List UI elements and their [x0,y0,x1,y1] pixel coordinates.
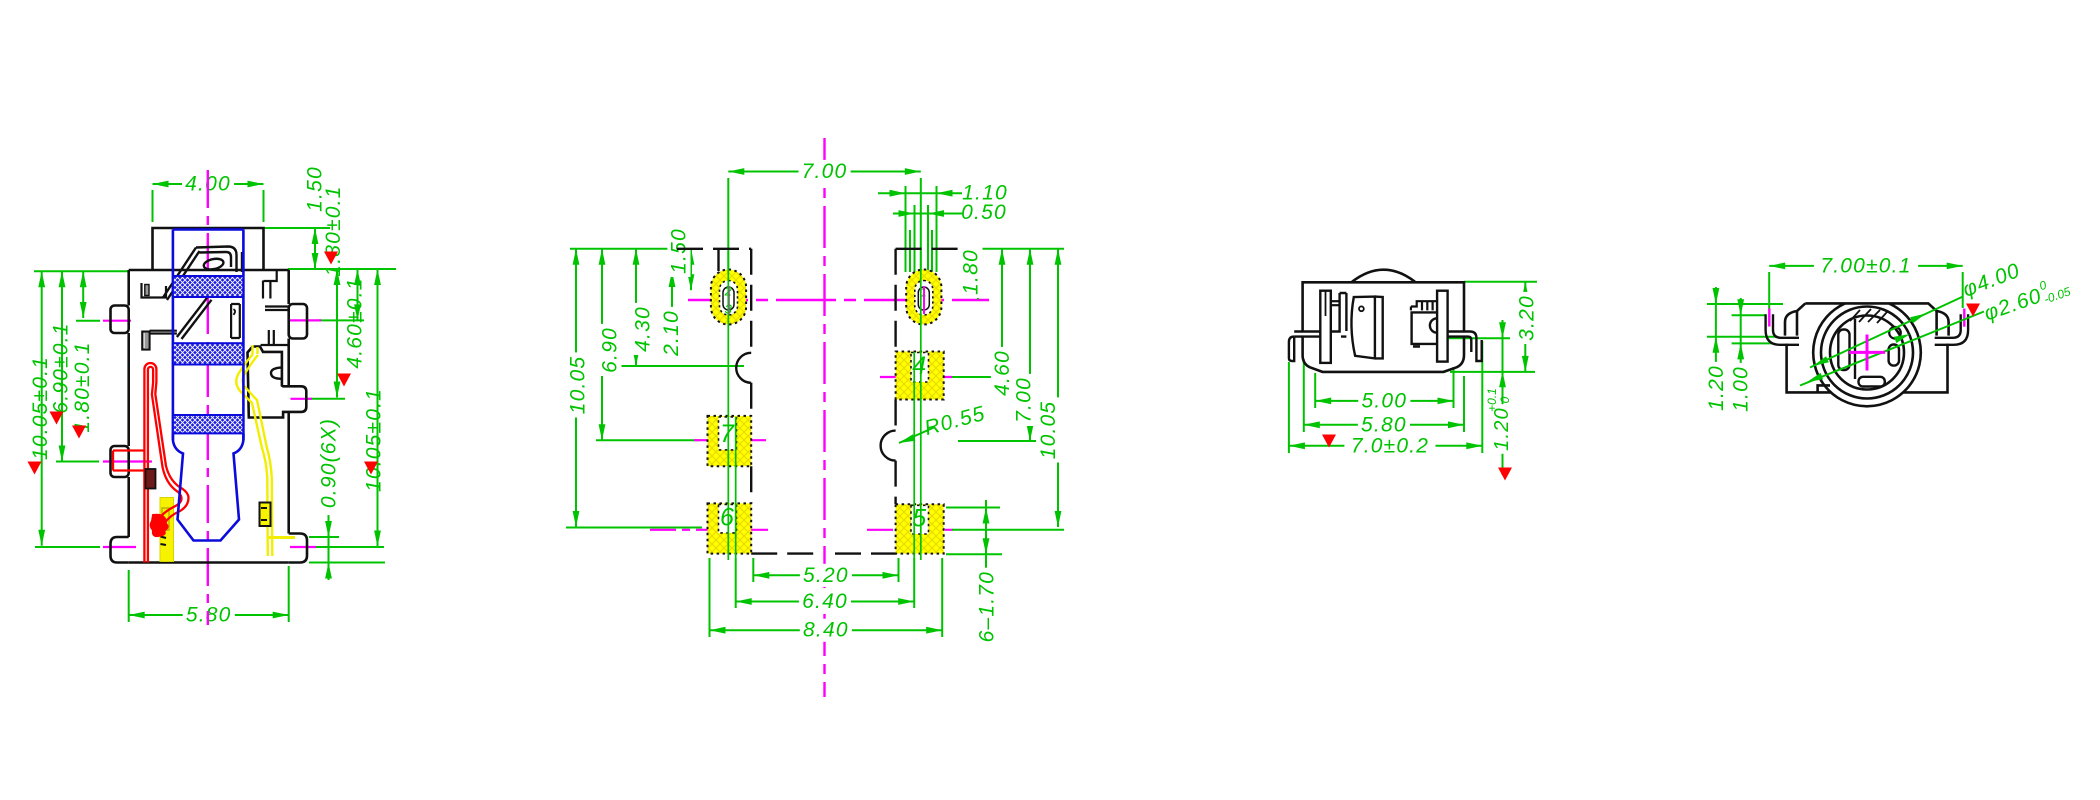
dim 10.05 v2-right [1057,249,1059,527]
svg-text:10.05±0.1: 10.05±0.1 [363,388,386,492]
svg-text:1.80±0.1: 1.80±0.1 [71,341,94,432]
svg-text:10.05: 10.05 [567,356,590,415]
left notch centerline [618,365,744,367]
v4 dim 7.00±0.1 [1769,265,1963,267]
svg-text:0: 0 [1498,396,1512,403]
dim 1.80±0.1 left [82,271,84,318]
red tab links [113,449,144,451]
red spring inner [148,367,182,563]
v3 dim 5.80 [1304,424,1464,426]
v3 left lead [1294,293,1346,337]
hole vertical ext right [920,252,922,560]
cap switch right edge [241,252,243,272]
cap outline [153,228,264,270]
thru-hole pad right [906,270,941,325]
hole center ticks [728,286,730,314]
dim 2.10 v2-left [671,271,673,329]
lower-left tab [111,537,129,563]
v3 right foot [1471,338,1481,361]
svg-text:4.30: 4.30 [632,306,655,352]
plug ring band 2 [173,343,244,364]
body outline left stub [717,249,719,271]
plug barrel sides [173,230,244,441]
v4 center cross [1849,351,1885,354]
pad 7 [708,416,752,466]
svg-text:7.00: 7.00 [802,160,848,183]
v3 dim 7.0±0.2 [1289,445,1482,447]
dim 6.40 [736,601,915,603]
body outline top-left [677,248,751,250]
dim 0.50 [893,213,962,215]
right upper terminal [261,281,289,346]
svg-text:7.00: 7.00 [1013,377,1036,423]
yellow strip left [160,498,174,562]
dim 4.00 top [153,183,264,185]
yellow strip left marks [161,537,167,546]
v3 cup piece [1351,297,1382,359]
red solder pad [146,469,156,489]
dim 7.00 v2-top [728,171,921,173]
right notch ext [958,440,1036,442]
v3 bar A [1320,291,1331,363]
svg-text:0.50: 0.50 [961,201,1007,224]
svg-text:0.90(6X): 0.90(6X) [318,418,341,508]
svg-text:6.90: 6.90 [599,327,622,373]
svg-text:8.40: 8.40 [803,619,849,642]
right rail [894,249,896,504]
v4 body outline [1785,303,1949,392]
svg-text:4.60: 4.60 [991,350,1014,396]
v4 foot centerline right [1963,309,1965,327]
body outline [129,270,289,563]
dim 6.90±0.1 left [61,271,63,461]
centerline lower-right tab [312,546,384,548]
svg-text:10.05: 10.05 [1037,401,1060,460]
v4 shading strokes [1850,309,1887,323]
v3 cup circle [1359,306,1364,311]
svg-text:1.00: 1.00 [1730,366,1753,412]
leader phi4.00 [1810,297,1963,368]
svg-text:3.20: 3.20 [1516,295,1539,341]
left bracket upper [142,283,167,298]
v4 bottom bar [1859,377,1885,387]
center vertical axis [823,138,825,697]
dim 4.60±0.1 right [336,269,338,398]
right mid terminal [248,347,307,418]
v4 outer circle [1813,303,1921,406]
pad7 centerline [596,439,700,441]
pad 4 [896,352,944,400]
red crimp blob [151,515,168,536]
v3 ext lead-top [1448,337,1510,339]
left bracket arm [150,331,177,334]
centerline mid-right tab [308,398,345,400]
v3 left foot [1289,337,1294,361]
svg-text:1.50: 1.50 [668,228,691,274]
pad5 centerline [867,529,955,531]
svg-text:1.80±0.1: 1.80±0.1 [322,185,345,276]
v3 body outline [1303,282,1464,372]
cap switch hole [203,257,225,271]
v3 dim 5.00 [1315,400,1453,402]
v4 left lead front [1766,314,1799,345]
red spring outer [144,363,188,563]
yellow bracket right [260,503,271,527]
pad5 ext lines [946,507,1000,509]
dim 7.00 v2-right [1029,249,1031,441]
v4 slot vertical [1854,319,1856,379]
body outline top-right [896,248,966,250]
pad 6 [708,503,752,553]
dim 4.30 v2-left [635,249,637,366]
top ext left [570,248,680,250]
yellow contact spring [236,354,268,556]
plug tip [173,433,244,540]
dim 10.05±0.1 left [41,271,43,545]
v4 dim 1.20 [1715,287,1717,410]
dim 1.50 right-top [314,228,316,269]
v3 step AB [1331,300,1340,302]
centerline upper-left tab [76,320,100,322]
v3 battlement [1411,301,1437,310]
center pin [231,304,240,338]
dim 5.80 bottom [129,614,289,616]
dim 1.10 [878,192,962,194]
small ext lines above right hole [905,186,907,272]
ext line body-top right [288,268,396,270]
body diagonal contact [177,298,212,339]
v4 right lead front [1935,314,1968,345]
upper-left tab [111,306,129,334]
cap switch diagonal [163,248,200,301]
mid-left tab [111,446,129,477]
terminal dimple [271,368,282,379]
dim 1.80±0.1 right-top [357,269,359,320]
centerline lower-left tab [35,546,100,548]
hole vertical ext left [727,252,729,560]
dim 5.20 [753,574,898,576]
leader phi2.60 [1800,312,1984,386]
dim 1.50 v2-left [690,249,692,290]
ext line body-top left [34,270,130,272]
dim 4.60 v2-right [1001,249,1003,377]
centerline mid-left tab [56,461,99,463]
v3 box F [1412,312,1438,346]
v4 left contact bar [1838,330,1849,371]
v4 middle ring [1821,307,1913,399]
cap right step [264,270,277,281]
ext line cap-top right [264,227,330,229]
v3 dim 1.20 +0.1/0 [1502,320,1504,475]
v3 right lead [1448,332,1477,341]
hole centerline horizontal [688,299,989,301]
svg-text:+0.1: +0.1 [1485,388,1499,412]
v3 bar E [1437,291,1448,362]
svg-text:1.20: 1.20 [1705,365,1728,411]
left rail [751,249,895,554]
yellow behind terminal [253,345,258,354]
plug ring band 1 [173,276,244,297]
pad4 centerline [880,376,955,378]
svg-text:5.80: 5.80 [1361,413,1407,436]
svg-text:4.60±0.1: 4.60±0.1 [344,277,367,368]
thru-hole pad left [711,270,746,325]
v3 ext body-bottom [1450,371,1535,373]
v3 dim 3.20 [1524,282,1526,372]
v4 datum triangle [1966,304,1980,317]
dim 8.40 [710,629,943,631]
centerline upper-right tab [317,319,364,321]
v4 dim 1.00 [1740,298,1742,409]
top ext right [960,248,1064,250]
lower-right tab [289,534,307,563]
dim 10.05 v2-left [575,249,577,527]
v4 small hole [1889,327,1901,339]
dim 1.80 v2-right [977,249,979,300]
pad 5 [896,504,944,553]
v3 ext lines bottom [1314,373,1316,408]
centerline plug axis [207,170,209,625]
svg-text:5.00: 5.00 [1361,389,1407,412]
v4 foot centerline left [1768,309,1770,327]
leader R0.55 [899,427,935,443]
svg-text:6.40: 6.40 [802,590,848,613]
svg-text:6–1.70: 6–1.70 [975,571,998,642]
v4 ext left cluster [1707,303,1783,305]
svg-text:1.80: 1.80 [960,249,983,295]
v4 right contact bar [1889,345,1899,366]
svg-text:5.20: 5.20 [803,564,849,587]
svg-text:7.00±0.1: 7.00±0.1 [1820,254,1911,277]
yellow bottom link [269,536,295,539]
v4 inner circle [1830,316,1904,390]
svg-text:1.20: 1.20 [1491,407,1513,451]
dim 0.90(6X) [328,418,330,580]
plug ring band 3 [173,415,244,433]
v3 dome [1352,270,1415,282]
svg-text:7.0±0.2: 7.0±0.2 [1351,434,1429,457]
pad6 centerline [566,527,702,529]
dim 6.90 v2-left [601,249,603,440]
dim 6-1.70 [985,500,987,645]
left bracket lower slot [142,332,149,350]
upper-right tab [289,304,307,339]
svg-text:6.90±0.1: 6.90±0.1 [50,322,73,413]
dim 10.05±0.1 right [377,269,379,547]
v3 ext body-top [1464,281,1537,283]
svg-text:2.10: 2.10 [660,310,683,357]
cap switch top [196,247,237,273]
